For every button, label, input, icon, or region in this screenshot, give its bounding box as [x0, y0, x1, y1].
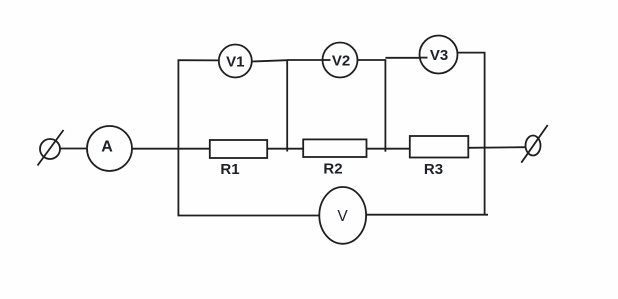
wire (voltmeter V to bottom right corner): [366, 214, 488, 216]
terminal J1 (left input, circle with slash): [38, 130, 64, 166]
voltmeter V3: [420, 36, 458, 74]
wire (V3 to right vertical, corner): [457, 53, 484, 148]
resistor R2: [303, 139, 366, 157]
wire (R2 to R3 through node C): [367, 148, 411, 150]
wire (ammeter to node A / resistor R1): [132, 148, 211, 150]
svg-text:V2: V2: [332, 53, 350, 70]
wire (bottom left, node down-left to voltmeter V): [178, 215, 320, 217]
svg-text:A: A: [101, 139, 113, 156]
wire (R3 to right terminal): [468, 146, 525, 149]
wire (right vertical, middle wire down to bottom wire): [484, 148, 486, 215]
resistor R3: [410, 136, 469, 158]
svg-text:V1: V1: [226, 54, 244, 71]
wire (V1 to node B top): [252, 60, 287, 61]
wire (left vertical branch, node A down to bottom wire): [177, 60, 179, 216]
svg-text:V3: V3: [430, 47, 448, 64]
wire stub into V3: [420, 57, 428, 59]
wire (R1 to R2 through node B): [267, 148, 303, 150]
voltmeter V: [319, 187, 366, 244]
ammeter A: [87, 126, 132, 171]
svg-text:R2: R2: [323, 161, 342, 178]
wire (top-left node to V1): [178, 59, 220, 61]
svg-text:R3: R3: [424, 161, 443, 178]
resistor R1: [210, 140, 267, 158]
wire (left terminal to ammeter): [60, 148, 87, 150]
wire (V2 to node C top): [358, 59, 386, 61]
svg-text:V: V: [337, 208, 348, 225]
terminal J2 (right output, ellipse with slash): [521, 125, 547, 163]
voltmeter V1: [219, 45, 252, 78]
wire (node B vertical, top wire down to middle wire): [286, 60, 288, 152]
wire (node C top to V3, overlaps into circle): [385, 57, 428, 59]
svg-text:R1: R1: [220, 161, 239, 178]
wire stub into V2: [323, 59, 331, 61]
wire (node C vertical, top wire down to middle wire): [384, 59, 386, 151]
voltmeter V2: [323, 43, 358, 78]
wire (node B top to V2, overlaps into circle): [287, 59, 331, 61]
